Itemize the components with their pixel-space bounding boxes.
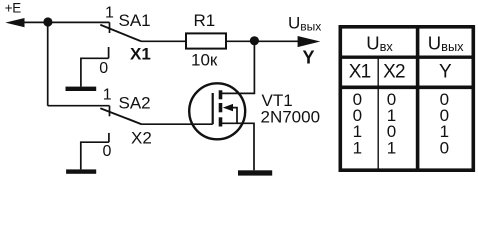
switch SA1 contact 1 tick [109,22,111,33]
switch SA2 contact 1 tick [109,106,111,117]
ground (SA2) [66,169,96,173]
wire to SA2 contact 1 [48,105,110,107]
VT1 gate electrode [212,93,214,124]
svg-text:+E: +E [5,1,21,16]
wire R1 to output node [227,40,299,42]
VT1 channel bar body [219,103,223,112]
truth table [339,25,476,172]
VT1 body arrow (N-channel) [223,104,233,111]
wire junction down to SA2 [47,22,49,105]
table thin divider X1|X2 [377,59,379,169]
VT1 channel bar source [219,117,223,126]
VT1 body to source link [232,108,237,124]
ground (SA1) [66,87,97,91]
svg-text:10к: 10к [191,50,218,69]
wire output node down to drain [221,41,255,93]
svg-text:X2: X2 [131,128,152,147]
VT1 source lead to ground [221,123,254,170]
table line under header row 1 [339,56,476,59]
svg-text:R1: R1 [194,11,216,30]
svg-text:SA1: SA1 [119,11,151,30]
switch SA1 lever [100,25,141,42]
table thick divider Uvx|Uvyh [416,25,420,172]
table line under header row 2 [339,85,476,89]
table outer border [340,27,473,170]
svg-text:1: 1 [103,87,112,104]
svg-text:1: 1 [387,138,396,157]
switch SA1 contact 0 tick [108,47,110,58]
power arrow +E [5,18,24,27]
svg-text:1: 1 [105,4,114,21]
svg-text:Y: Y [439,62,452,83]
svg-text:0: 0 [440,138,449,157]
svg-text:2N7000: 2N7000 [261,107,321,126]
wire SA1 contact 0 to ground [81,58,109,86]
svg-text:X1: X1 [130,44,151,63]
wire SA2 contact 0 to ground [81,142,109,169]
wire SA1 pole to R1 [141,40,185,42]
node output junction [250,36,259,45]
resistor R1 [186,33,226,48]
node junction at +E rail [43,17,52,26]
transistor VT1 body circle [189,83,245,139]
svg-text:1: 1 [353,138,362,157]
svg-text:Y: Y [303,48,315,68]
ground (VT1 source) [238,170,272,175]
VT1 channel bar drain [219,90,223,99]
svg-text:SA2: SA2 [119,94,151,113]
svg-text:X2: X2 [383,62,405,83]
switch SA2 lever [100,108,141,124]
svg-text:0: 0 [99,60,108,77]
switch SA2 contact 0 tick [108,133,110,142]
wire SA2 pole to gate of VT1 [142,123,213,125]
output arrow [298,36,321,47]
svg-text:0: 0 [103,143,112,160]
svg-text:X1: X1 [349,62,371,83]
wire +E to SA1 contact [22,21,110,23]
